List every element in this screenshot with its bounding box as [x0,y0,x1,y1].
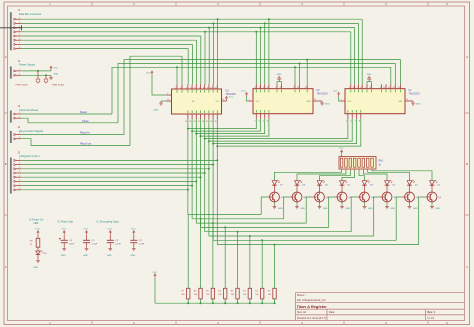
svg-text:19: 19 [214,121,216,123]
wire output 2 rise to Q5 base [306,197,312,223]
wire J2 pin1 to VCC [21,70,51,72]
svg-text:VCC: VCC [108,229,113,231]
ground at Q7 emitter [273,202,284,210]
wire band bit 2 from U3 to U2 [196,119,264,134]
power symbol VCC at J2 [50,66,58,71]
svg-text:10k: 10k [181,294,184,296]
wire data bus bit 6 drop to U3 [191,44,193,84]
svg-text:Size: A4: Size: A4 [297,311,307,314]
junction ALU bus bit 4 [200,176,202,178]
resistor R6 10k [194,288,203,303]
wire VCC to U2 pin [247,97,249,101]
LED D1 [407,180,418,192]
svg-text:5: 5 [263,87,264,89]
svg-text:GND: GND [306,101,311,103]
wire output 6 drop to resistor R1 [261,240,263,288]
U1 right pin GND [405,99,413,101]
wire VCC to rail [154,278,156,303]
wire U3 output 2 vertical [195,119,197,223]
svg-text:VCC: VCC [348,101,353,103]
U3 right pin 20 [222,99,227,101]
cursor crosshair [0,25,22,30]
power flag F1 PWR_FLAG [16,71,40,87]
IC U2 74LVC273 body [253,89,328,114]
junction R6 on rail [200,302,202,304]
svg-text:3: 3 [349,87,350,89]
svg-text:VCC: VCC [216,101,221,103]
wire Reg A out [21,139,130,146]
svg-text:7: 7 [275,87,276,89]
wire band bit 6 from U3 to U1 [213,119,356,144]
svg-text:B: B [466,162,468,166]
wire Reg A in [21,134,124,136]
resistor R3 10k [231,288,240,303]
junction output 1 at resistor drop [200,218,202,220]
wire band bit 5 from U3 to U1 [209,119,352,141]
transistor Q7 [267,192,284,202]
wire VCC to U1 pin [339,97,340,101]
svg-text:8: 8 [203,87,204,89]
svg-text:Reset: Reset [80,110,87,114]
LED D8 power indicator [36,250,47,258]
wire U3 output 2 horizontal run [196,222,306,224]
junction band bit 0 on U3 column [187,128,189,130]
svg-text:17: 17 [206,121,208,123]
svg-text:GND: GND [107,255,112,257]
svg-text:7: 7 [19,43,20,45]
wire output 5 rise to Q2 base [374,197,380,236]
svg-text:GND: GND [398,101,403,103]
svg-text:9: 9 [207,87,208,89]
wire data bus bit 7 horizontal [21,48,188,50]
svg-text:5: 5 [255,121,256,123]
wire data bus bit 0 drop to U1 [361,19,363,84]
svg-text:1: 1 [19,112,20,114]
wire ALU bus bit 2 [21,168,209,170]
wire control 3 drop to U2 [306,60,308,85]
resistor R7 10k [181,288,190,303]
wire U3 output 0 horizontal run [188,214,261,216]
svg-text:GND: GND [53,73,58,75]
svg-text:7: 7 [19,184,20,186]
ground at Q0 emitter [430,202,441,210]
junction ALU bus bit 0 [216,159,218,161]
svg-text:10: 10 [210,87,212,89]
svg-text:Reg A out: Reg A out [80,142,92,146]
svg-text:Clock and Reset: Clock and Reset [19,108,38,112]
wire output 7 drop to resistor R0 [274,245,276,289]
wire band bit 3 from U3 to U2 [201,119,269,136]
U3 top pins [175,84,217,92]
power symbol VCC at RN1 [339,148,344,155]
connector J5 A Register to ALU [10,151,39,193]
wire output 3 drop to resistor R4 [224,227,226,288]
svg-text:GND: GND [435,208,440,210]
wire U3 output 5 vertical [208,119,210,236]
svg-text:2: 2 [19,116,20,118]
svg-text:6: 6 [195,87,196,89]
svg-text:1: 1 [19,69,20,71]
ground at D8 [33,258,40,269]
U2 right pin GND [313,99,322,101]
wire output 6 rise to Q1 base [396,197,402,240]
wire data bus bit 2 drop to U2 [260,28,262,85]
junction data bus bit 0 at U3 drop [217,18,219,20]
svg-text:11: 11 [305,87,307,89]
svg-text:0.1uF: 0.1uF [139,244,145,246]
svg-text:2: 2 [175,87,176,89]
junction R1 on rail [261,302,263,304]
svg-text:8: 8 [19,47,20,49]
wire data bus bit 5 horizontal [21,39,197,41]
svg-text:2: 2 [19,137,20,139]
svg-text:1: 1 [249,99,250,101]
svg-text:C: C [5,265,7,269]
svg-text:10uF: 10uF [69,244,75,246]
svg-text:7: 7 [355,121,356,123]
wire data bus bit 0 drop to U3 [217,19,219,84]
svg-text:13: 13 [189,121,191,123]
svg-text:GND: GND [33,267,38,269]
svg-text:VCC: VCC [62,229,67,231]
wire RN1 output 5 to LED D2 [363,171,387,181]
svg-text:Reg A in: Reg A in [80,131,90,135]
title block [296,293,465,321]
junction output 5 at resistor drop [249,235,251,237]
svg-text:5: 5 [346,121,347,123]
power symbol VCC at U1 left [333,91,340,97]
wire U3 output 0 vertical [187,119,189,215]
LED D4 [340,180,351,192]
junction R0 on rail [274,302,276,304]
svg-text:5: 5 [357,87,358,89]
svg-text:1: 1 [167,93,168,95]
svg-text:PWR_FLAG: PWR_FLAG [16,84,28,87]
resistor R0 10k [268,288,277,303]
wire U3 output 3 vertical [200,119,202,227]
wire band bit 1 from U3 to U2 [192,119,260,131]
svg-text:13: 13 [398,87,400,89]
wire output 4 drop to resistor R3 [237,232,239,289]
junction band bit 4 on U3 column [204,138,206,140]
svg-text:5: 5 [190,87,191,89]
svg-text:Power Supply: Power Supply [19,63,36,67]
connector J2 Power Supply [10,60,36,79]
svg-text:RN1: RN1 [379,160,384,162]
ground at Q1 emitter [408,202,419,210]
LED D2 [385,180,396,192]
svg-text:0.1uF: 0.1uF [92,244,98,246]
ground at C1 [83,246,88,257]
wire VCC to U3 [152,76,167,96]
wire output 1 rise to Q6 base [284,197,290,219]
svg-text:5: 5 [19,34,20,36]
wire data bus bit 3 continues to U1 [205,31,351,33]
wire control riser 1 to U3/U2/U1 [112,67,391,114]
wire RN1 output 1 to LED D6 [297,171,346,181]
wire data bus bit 1 continues to U1 [213,22,358,24]
net label Reg A out [80,142,92,146]
svg-text:GND: GND [368,208,373,210]
wire U3 output 6 horizontal run [213,239,396,241]
svg-text:Date:: Date: [329,311,335,314]
svg-text:10: 10 [297,87,299,89]
power symbol GND at U1 right [411,101,421,106]
svg-text:GND: GND [345,208,350,210]
svg-text:4: 4 [19,171,20,173]
wire output 5 drop to resistor R2 [249,236,251,288]
svg-text:10k: 10k [231,294,234,296]
wire ALU bus bit 7 [21,189,188,191]
resistor R5 10k [206,288,215,303]
svg-text:6: 6 [19,180,20,182]
svg-text:IC Decoupling Caps: IC Decoupling Caps [97,220,120,223]
svg-text:10: 10 [314,99,316,101]
svg-text:7: 7 [263,121,264,123]
wire data bus bit 1 horizontal [21,22,213,24]
wire RN1 output 7 to LED D0 [372,171,432,181]
wire ALU bus bit 0 [21,159,217,161]
wire data bus bit 2 continues to U1 [209,27,354,29]
svg-text:74HC245: 74HC245 [226,93,237,96]
wire data bus bit 2 horizontal [21,27,209,29]
wire control riser 4 to U3 [130,56,182,145]
junction ALU bus bit 7 [187,189,189,191]
svg-text:GND: GND [367,74,372,76]
power flag F2 PWR_FLAG [44,75,64,86]
svg-text:7: 7 [199,87,200,89]
wire U3 output 4 horizontal run [205,231,352,233]
ground at Q4 emitter [340,202,351,210]
power symbol VCC at R8 [35,229,40,236]
svg-text:4: 4 [19,30,20,32]
svg-text:3: 3 [19,167,20,169]
svg-text:GND: GND [300,208,305,210]
wire output 1 drop to resistor R6 [200,219,202,288]
svg-text:VCC: VCC [152,272,157,274]
svg-text:0.1uF: 0.1uF [115,244,121,246]
wire data bus bit 0 drop to U2 [268,19,270,84]
IC U1 74LVC273 body [345,89,420,114]
svg-text:1: 1 [341,99,342,101]
wire ALU bus bit 3 [21,172,205,174]
svg-text:10k: 10k [268,294,271,296]
junction R4 on rail [224,302,226,304]
wire Reset [21,113,112,115]
svg-text:GND: GND [83,255,88,257]
svg-text:6: 6 [350,121,351,123]
junction output 3 at resistor drop [224,226,226,228]
junction R3 on rail [237,302,239,304]
svg-text:GND: GND [416,104,421,106]
svg-text:8: 8 [370,87,371,89]
junction data bus bit 2 at U2 branch [260,27,262,29]
svg-text:LED: LED [34,222,39,225]
wire data bus bit 6 horizontal [21,43,192,45]
svg-text:A Register to ALU: A Register to ALU [19,154,40,158]
svg-text:15: 15 [198,121,200,123]
svg-text:8: 8 [280,87,281,89]
svg-text:VCC: VCC [53,68,58,70]
svg-text:10: 10 [406,99,408,101]
wire data bus bit 2 drop to U1 [354,28,356,85]
ground at Q2 emitter [385,202,396,210]
junction data bus bit 3 at U3 drop [204,31,206,33]
svg-text:GND: GND [325,104,330,106]
svg-text:8: 8 [19,188,20,190]
LED D5 [317,180,328,192]
svg-text:GND: GND [130,255,135,257]
wire Clock [21,118,118,123]
power symbol VCC at U3 left [146,71,153,76]
wire output 2 drop to resistor R5 [212,223,214,288]
capacitor C3 0.1uF [130,229,145,247]
svg-text:4: 4 [353,87,354,89]
connector J1 Data Bus Connector [10,9,41,50]
svg-text:VCC: VCC [339,148,344,150]
junction output 6 at resistor drop [261,239,263,241]
svg-text:10k: 10k [206,294,209,296]
svg-text:1: 1 [19,17,20,19]
wire U3 output 6 vertical [212,119,214,240]
wire control riser 3 to U2/U1 [124,60,400,135]
junction data bus bit 0 at U2 branch [268,18,270,20]
svg-text:18: 18 [210,121,212,123]
junction band bit 3 on U3 column [200,135,202,137]
U2 left pin 1 [248,99,253,101]
junction control 1 at U2 [294,66,296,68]
junction output 2 at resistor drop [212,222,214,224]
U3 left pin VCC [167,93,172,95]
svg-text:GND: GND [277,74,282,76]
power symbol GND at J2 [49,73,59,79]
ground at C4 [61,246,66,257]
wire U3 output 1 vertical [191,119,193,219]
wire data bus bit 0 horizontal [21,18,218,20]
svg-text:2: 2 [19,22,20,24]
svg-text:VCC: VCC [35,229,40,231]
svg-text:B: B [5,162,7,166]
svg-text:Data Bus Connector: Data Bus Connector [19,13,42,16]
junction R2 on rail [249,302,251,304]
wire data bus bit 3 drop to U3 [204,32,206,84]
wire data bus bit 3 drop to U1 [350,32,352,84]
svg-text:A: A [5,55,7,59]
svg-text:VCC: VCC [229,97,234,99]
svg-text:GND: GND [154,110,159,112]
svg-text:KiCad E.D.A. kicad (6.0.7): KiCad E.D.A. kicad (6.0.7) [297,317,326,320]
svg-text:GND: GND [278,208,283,210]
wire RN1 output 0 to LED D7 [275,171,342,181]
junction control 1 at U3 [176,66,178,68]
wire RN1 output 4 to LED D3 [359,171,365,181]
ground at Q6 emitter [295,202,306,210]
wire ALU bus bit 1 [21,164,213,166]
LED D7 [272,180,283,192]
net label Reset [80,110,87,114]
svg-text:10k: 10k [194,294,197,296]
svg-text:14: 14 [193,121,195,123]
section label IC Power Cap [58,220,74,223]
junction band bit 2 on U3 column [195,133,197,135]
svg-text:10: 10 [167,99,169,101]
junction ALU bus bit 3 [204,172,206,174]
svg-text:Id: 1/1: Id: 1/1 [428,317,436,320]
wire data bus bit 1 drop to U1 [357,23,359,84]
svg-text:10: 10 [383,87,385,89]
wire band bit 0 from U3 to U2 [188,119,256,129]
svg-text:GND: GND [61,255,66,257]
wire control 1 drop to U2 [294,67,296,84]
svg-text:Titan A Register: Titan A Register [297,304,328,309]
transistor Q0 [425,192,442,202]
transistor Q5 [312,192,329,202]
wire band bit 4 from U3 to U1 [205,119,348,139]
svg-text:5: 5 [19,175,20,177]
svg-text:11: 11 [215,87,217,89]
svg-text:GND: GND [390,208,395,210]
wire control riser 2 to U2/U1 [118,64,395,123]
junction ALU bus bit 6 [191,185,193,187]
wire U3 output 1 horizontal run [192,218,284,220]
wire RN1 output 3 to LED D4 [342,171,355,181]
U1 bottom pins [346,110,361,123]
LED D6 [295,180,306,192]
svg-text:4: 4 [186,87,187,89]
wire control 2 drop to U2 [299,64,301,85]
svg-text:12: 12 [185,121,187,123]
wire data bus bit 3 horizontal [21,31,205,33]
wire band bit 7 from U3 to U1 [217,119,360,146]
svg-text:A: A [466,55,468,59]
svg-text:Sheet: /: Sheet: / [297,294,306,297]
power symbol VCC at U2 left [241,91,248,97]
wire output 3 rise to Q4 base [329,197,335,227]
svg-text:10k: 10k [243,294,246,296]
transistor Q6 [290,192,307,202]
svg-text:VCC: VCC [131,229,136,231]
ground at C2 [107,246,112,257]
junction ALU bus bit 5 [195,180,197,182]
U3 bottom pins [185,110,217,123]
resistor R8 1k [30,235,40,251]
junction ALU bus bit 2 [208,168,210,170]
wire U3 output 4 vertical [204,119,206,232]
svg-text:GND: GND [413,208,418,210]
U2 top pins [255,84,308,92]
wire RN1 output 2 to LED D5 [320,171,351,181]
svg-text:2: 2 [19,163,20,165]
connector J3 Clock and Reset [10,105,38,122]
ground at Q5 emitter [318,202,329,210]
junction R5 on rail [212,302,214,304]
svg-text:File: A Register.kicad_sch: File: A Register.kicad_sch [297,299,326,302]
junction R7 on rail [187,302,189,304]
capacitor C2 0.1uF [107,229,122,247]
power symbol VCC at U3 right [226,96,234,101]
junction band bit 1 on U3 column [191,130,193,132]
wire U3 output 3 horizontal run [201,226,329,228]
junction PWR_FLAG F1 [37,70,39,72]
section label IC Decoupling Caps [97,220,120,223]
transistor Q3 [357,192,374,202]
ground at C3 [130,246,135,257]
svg-text:VCC: VCC [241,91,246,93]
svg-text:8: 8 [359,121,360,123]
svg-text:9: 9 [293,87,294,89]
svg-text:20: 20 [222,99,224,101]
junction PWR_FLAG F2 [45,74,47,76]
